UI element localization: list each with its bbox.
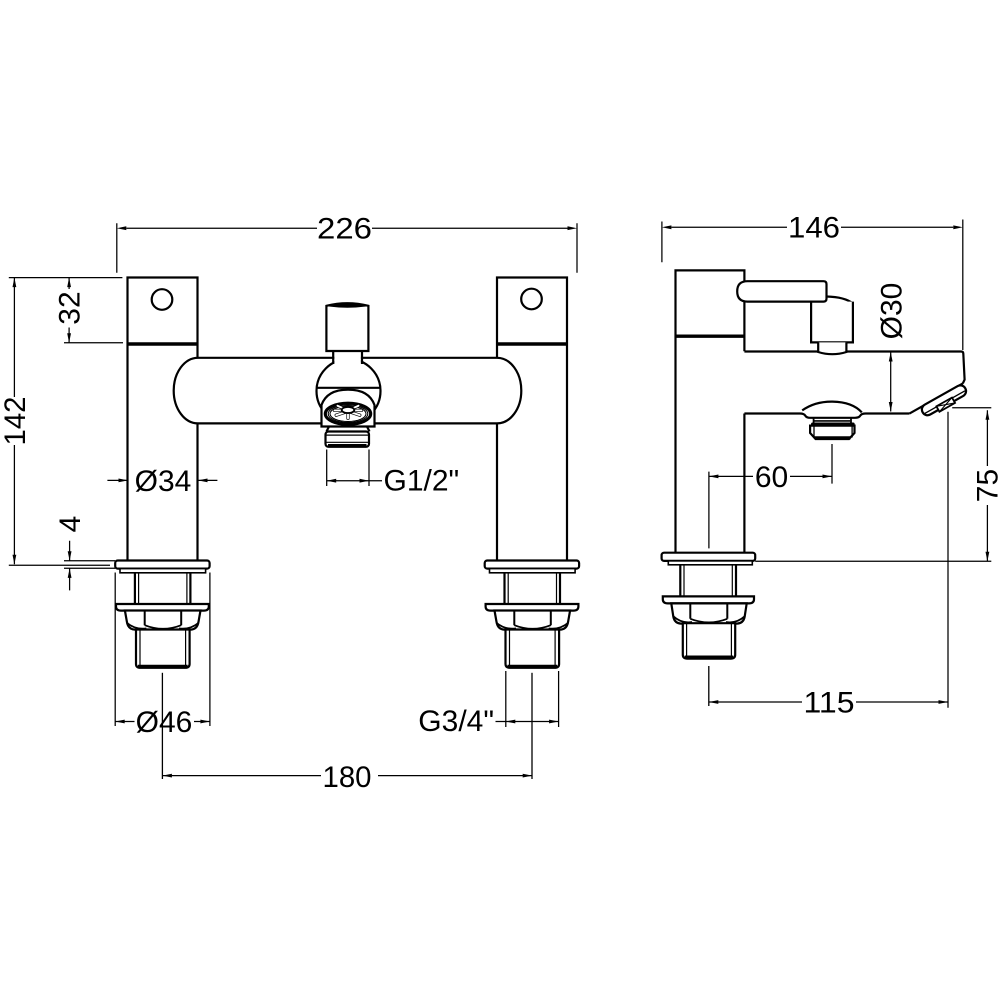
side hose connector body inner lines [814, 427, 852, 438]
right pillar block parting thick line [497, 342, 567, 345]
left leg tail pipe inner lines [140, 630, 186, 666]
svg-text:75: 75 [971, 469, 1000, 502]
dim 60 extension lines [709, 444, 832, 548]
left leg tail pipe bottom thick edge [138, 665, 188, 668]
dim 32 arrows [67, 278, 71, 288]
side shower outlet dome [802, 402, 862, 413]
dim 4 arrows [68, 551, 72, 561]
right leg hex locknut [495, 611, 571, 630]
dim 4 stubs [69, 541, 71, 591]
dim D46 arrows [115, 720, 125, 724]
dim D34 stubs [107, 479, 217, 481]
right leg locknut washer [486, 604, 579, 611]
dim 60 arrows [709, 475, 719, 479]
side deck flange [662, 553, 756, 561]
side threaded shank [680, 565, 736, 597]
dim D30 arrows [889, 352, 893, 362]
side tail pipe [683, 623, 735, 658]
G1/2 connector grooves [327, 435, 369, 442]
svg-text:4: 4 [54, 516, 87, 533]
right pillar [497, 278, 567, 561]
dim G3/4 extension lines [506, 671, 559, 727]
side hose connector bottom thick edge [815, 436, 851, 439]
handle knob top cap lens [326, 303, 368, 307]
side gasket plate [668, 561, 752, 565]
side hex facets [690, 603, 727, 618]
dim 115 arrows [709, 700, 719, 704]
side hose connector ring line [814, 420, 850, 422]
rosette star spokes outlined [335, 406, 362, 419]
dim 146 extension lines [662, 220, 963, 351]
rosette middle ring [328, 405, 368, 423]
right leg center line [531, 673, 533, 779]
side diverter knob [818, 342, 846, 354]
dim 142 line [13, 278, 15, 565]
right pillar screw hole [521, 289, 542, 310]
side pillar block parting thick line [676, 335, 745, 338]
diverter handle knob [326, 303, 368, 351]
side hose connector collar band [813, 423, 853, 426]
left leg hex facet bottom arcs [127, 623, 199, 629]
svg-text:G1/2": G1/2" [384, 464, 460, 497]
dim 60 line [709, 475, 832, 477]
rosette outer ring [325, 403, 370, 424]
dim 180 arrows [162, 774, 172, 778]
svg-text:60: 60 [755, 461, 788, 494]
side center line [708, 666, 710, 706]
diverter sphere [317, 359, 381, 423]
svg-text:226: 226 [317, 212, 372, 245]
dim D34 arrows [119, 479, 129, 483]
dim 115 extension line [947, 412, 949, 708]
side pillar [676, 270, 745, 552]
front body capsule [174, 358, 522, 424]
dim 75 arrows [986, 410, 990, 420]
spout angled cut line [909, 384, 962, 414]
right leg tail pipe inner lines [510, 630, 556, 666]
svg-text:Ø46: Ø46 [136, 706, 193, 739]
G1/2 connector bottom thick edge [328, 444, 367, 447]
dim 146 arrows [662, 225, 672, 229]
side lever handle [737, 281, 826, 301]
left leg deck flange [115, 561, 209, 569]
aerator insert hatch lines [936, 398, 955, 412]
svg-text:142: 142 [0, 397, 32, 446]
deck surface double lines [64, 561, 115, 569]
dim 180 line [162, 775, 532, 777]
dim G1/2 line and leader [327, 480, 382, 482]
left leg hex locknut [125, 611, 201, 630]
dim 226 extension lines [117, 223, 577, 273]
side hose connector ring stubs [814, 418, 851, 423]
svg-text:32: 32 [54, 291, 87, 324]
right leg threaded shank [505, 573, 561, 604]
dim 32 line [68, 278, 70, 343]
left pillar block parting thick line [128, 342, 198, 345]
dim D30 arrow line [890, 352, 892, 412]
side hex locknut [671, 603, 746, 623]
svg-text:Ø34: Ø34 [135, 465, 192, 498]
side hex facet bottom arcs [673, 616, 745, 622]
G1/2 hose connector [326, 432, 370, 447]
right leg deck flange [485, 561, 579, 569]
svg-text:146: 146 [788, 212, 840, 245]
aerator rim inner line [925, 391, 965, 414]
outlet cup housing [322, 390, 375, 427]
sphere equator chord line [317, 387, 381, 389]
outlet collar [327, 427, 370, 432]
side spout body outline [744, 352, 964, 418]
side tail pipe inner lines [687, 624, 732, 657]
left leg center line [161, 673, 163, 779]
rosette inner ring [330, 406, 366, 421]
left pillar screw hole [152, 289, 173, 310]
right leg hex facet bottom arcs [496, 623, 568, 629]
right leg gasket plate [490, 569, 576, 573]
left leg threaded shank [135, 573, 191, 604]
dim 115 line [709, 701, 948, 703]
aerator hatched insert [936, 398, 955, 412]
side hose connector body [810, 426, 854, 439]
left leg tail pipe [136, 630, 190, 668]
svg-text:Ø30: Ø30 [875, 283, 908, 340]
right leg hex facets [514, 611, 551, 626]
dim D46 line [115, 721, 210, 723]
left leg gasket plate [120, 569, 206, 573]
side tail pipe bottom thick edge [685, 656, 733, 659]
dim 75 extension lines [755, 408, 991, 562]
dim 75 line [986, 410, 988, 561]
rosette center hub [342, 407, 355, 413]
side cartridge housing top rim arc [827, 297, 853, 304]
dim 226 arrows [117, 226, 127, 230]
side locknut washer [663, 596, 754, 603]
aerator capsule on angled spout face [920, 383, 968, 417]
rosette face disc [331, 407, 365, 421]
svg-text:180: 180 [323, 761, 372, 794]
svg-text:G3/4": G3/4" [418, 705, 494, 738]
diverter neck [334, 349, 361, 365]
dim 142 arrows [13, 278, 17, 288]
dim 32 extension line [64, 342, 123, 344]
left leg hex facets [145, 611, 182, 626]
dim 146 line [671, 226, 953, 228]
dim G1/2 extension lines [327, 450, 369, 487]
dim G3/4 arrows [506, 720, 516, 724]
side cartridge housing [811, 302, 853, 343]
dim D46 extension lines [115, 573, 210, 727]
dim G1/2 arrows [327, 479, 337, 483]
left pillar [128, 278, 198, 561]
dim 226 line [126, 227, 567, 229]
svg-text:115: 115 [804, 686, 855, 719]
dim G3/4 line and leader [496, 721, 559, 723]
right leg tail pipe [506, 630, 560, 668]
dim 142 extension lines [9, 278, 123, 566]
right leg tail pipe bottom thick edge [508, 665, 558, 668]
left leg locknut washer [116, 604, 209, 611]
